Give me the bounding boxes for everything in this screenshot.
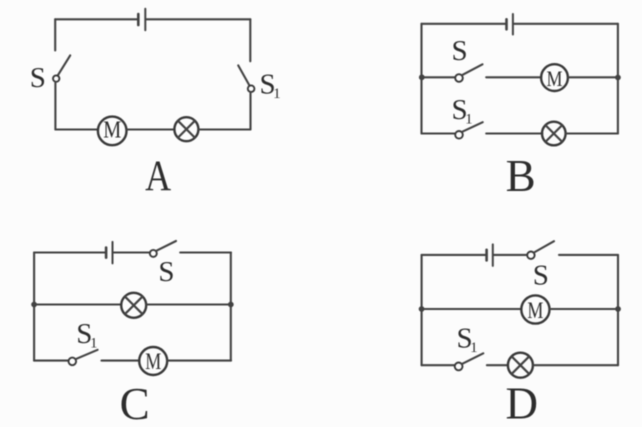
svg-text:D: D: [506, 378, 539, 427]
svg-text:M: M: [527, 298, 543, 323]
svg-text:S1: S1: [260, 68, 281, 102]
svg-text:A: A: [145, 153, 171, 200]
svg-text:M: M: [145, 349, 161, 374]
svg-text:S1: S1: [457, 322, 478, 356]
svg-text:C: C: [120, 379, 150, 427]
svg-text:S1: S1: [76, 318, 97, 352]
svg-text:S: S: [452, 35, 468, 67]
svg-text:B: B: [506, 151, 536, 201]
svg-text:S: S: [533, 260, 549, 292]
svg-text:M: M: [547, 66, 563, 91]
svg-text:M: M: [103, 117, 121, 143]
svg-text:S: S: [158, 256, 174, 288]
svg-text:S1: S1: [452, 94, 473, 128]
svg-text:S: S: [30, 62, 46, 94]
